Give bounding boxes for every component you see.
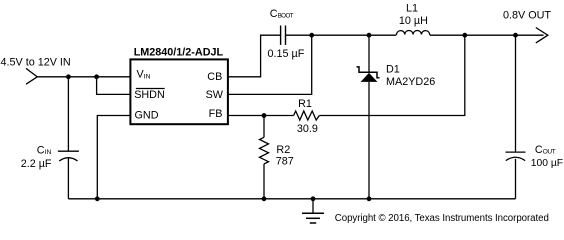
svg-text:MA2YD26: MA2YD26	[386, 76, 435, 88]
ground	[302, 196, 324, 223]
wire top rail CBOOT to L1	[286, 34, 397, 36]
wire GND pin to bottom rail	[97, 116, 130, 199]
wire bottom rail	[68, 198, 515, 200]
node junction dot R2/bottom rail	[262, 196, 267, 201]
svg-text:R2: R2	[276, 144, 290, 156]
svg-text:D1: D1	[386, 64, 400, 76]
svg-text:L1: L1	[406, 3, 418, 15]
svg-text:100 µF: 100 µF	[531, 158, 563, 169]
svg-text:COUT: COUT	[535, 144, 556, 156]
svg-text:0.15 µF: 0.15 µF	[268, 48, 305, 60]
resistor R1 30.9	[294, 98, 320, 135]
svg-text:GND: GND	[135, 110, 159, 122]
node junction dot GND/rail	[95, 196, 100, 201]
node VIN input: 4.5V to 12V IN	[1, 56, 71, 84]
wire FB pin to R1/R2 node	[228, 115, 294, 117]
capacitor CBOOT	[268, 8, 305, 60]
svg-text:4.5V to 12V IN: 4.5V to 12V IN	[1, 56, 71, 68]
svg-text:SW: SW	[206, 89, 224, 101]
node junction dot CBOOT/SW	[309, 33, 314, 38]
svg-text:CB: CB	[207, 71, 222, 83]
svg-text:30.9: 30.9	[297, 123, 318, 135]
svg-text:10 µH: 10 µH	[399, 15, 428, 27]
wire CB pin to CBOOT	[228, 35, 281, 77]
svg-text:0.8V OUT: 0.8V OUT	[503, 10, 551, 22]
wire input to VIN pin	[37, 76, 130, 78]
diode D1 MA2YD26 schottky	[357, 35, 436, 199]
svg-text:R1: R1	[298, 98, 312, 110]
node junction dot input/CIN	[66, 74, 71, 79]
svg-text:VIN: VIN	[137, 69, 151, 81]
svg-text:CBOOT: CBOOT	[270, 8, 294, 20]
node VOUT output: 0.8V OUT	[503, 10, 551, 43]
svg-text:787: 787	[276, 156, 294, 168]
svg-text:2.2 µF: 2.2 µF	[21, 158, 52, 170]
svg-text:FB: FB	[209, 108, 223, 120]
pin SHDN label with overline	[134, 89, 165, 102]
node junction dot R1 feedback/top rail	[462, 33, 467, 38]
node junction dot COUT/top rail	[513, 33, 518, 38]
resistor R2 787	[260, 116, 294, 199]
wire junction to SHDN pin	[97, 77, 130, 95]
op-amp U1 LM2840/1/2-ADJL regulator box	[130, 47, 228, 125]
wire R1 to output node	[319, 35, 465, 115]
svg-text:CIN: CIN	[37, 144, 52, 156]
capacitor COUT 100uF	[506, 35, 564, 199]
wire top rail L1 to output	[430, 34, 544, 36]
wire SW pin to top rail	[228, 35, 312, 94]
svg-text:SHDN: SHDN	[134, 89, 165, 101]
svg-text:LM2840/1/2-ADJL: LM2840/1/2-ADJL	[134, 47, 224, 59]
node junction dot FB	[262, 113, 267, 118]
svg-text:Copyright © 2016, Texas Instru: Copyright © 2016, Texas Instruments Inco…	[335, 213, 549, 224]
node junction dot D1/top rail	[367, 33, 372, 38]
capacitor CIN	[21, 77, 79, 199]
inductor L1 10uH	[396, 3, 430, 36]
node junction dot D1/bottom rail	[367, 196, 372, 201]
node junction dot input/SHDN	[94, 74, 99, 79]
